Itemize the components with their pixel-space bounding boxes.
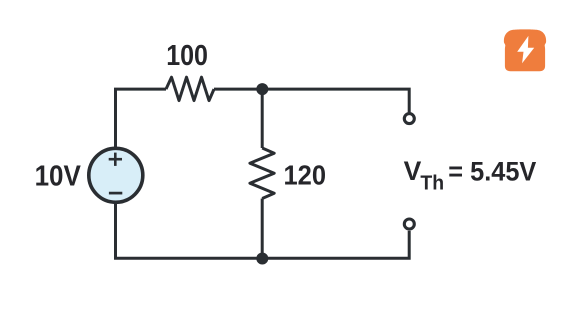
svg-text:= 5.45V: = 5.45V (448, 156, 536, 186)
svg-text:V: V (404, 156, 422, 186)
svg-text:10V: 10V (35, 160, 81, 192)
svg-text:120: 120 (284, 160, 327, 191)
svg-text:Th: Th (420, 173, 444, 195)
svg-text:100: 100 (166, 40, 208, 72)
